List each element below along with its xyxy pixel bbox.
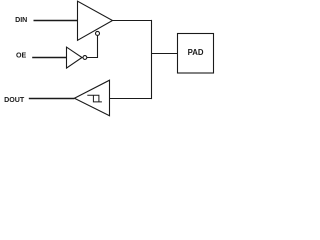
hysteresis symbol in U3 xyxy=(87,95,102,102)
wire bus vertical xyxy=(151,20,153,99)
wire OE to inverter input xyxy=(32,57,66,59)
wire bus to PAD xyxy=(152,53,179,55)
wire receiver output to DOUT xyxy=(29,98,75,100)
wire DIN to buffer input xyxy=(34,20,78,22)
svg-text:PAD: PAD xyxy=(188,48,204,57)
enable bubble on U1 xyxy=(96,31,100,35)
inverter U2 xyxy=(67,47,83,68)
tri-state output buffer U1 xyxy=(78,1,113,40)
svg-text:DOUT: DOUT xyxy=(4,96,25,104)
pad cell PAD xyxy=(178,34,214,74)
svg-text:DIN: DIN xyxy=(15,16,27,24)
wire inverter output to U1 enable xyxy=(87,35,98,57)
output bubble on U2 xyxy=(83,56,87,60)
svg-text:OE: OE xyxy=(16,51,27,59)
schmitt-trigger input receiver U3 xyxy=(74,80,109,116)
wire bus to receiver input xyxy=(109,98,152,100)
wire U1 output to bus xyxy=(112,20,153,22)
